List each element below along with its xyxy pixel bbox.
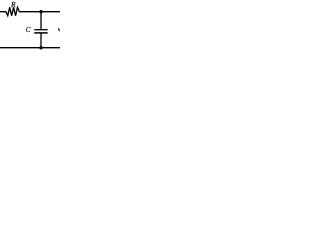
svg-text:R: R xyxy=(10,0,16,9)
svg-text:C: C xyxy=(26,25,31,34)
